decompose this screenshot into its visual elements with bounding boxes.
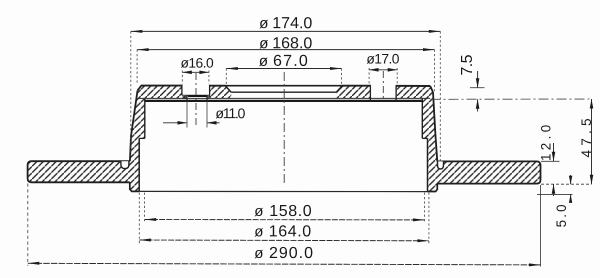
svg-text:12.0: 12.0 <box>538 121 553 161</box>
dim diameter 17.0: dimension line <box>369 69 397 71</box>
top face outer edge line (left of bolt hole) <box>141 85 183 87</box>
bolt hole 11: thick seat bar <box>188 95 207 97</box>
right flange relief notch <box>438 161 444 169</box>
svg-text:ø: ø <box>259 15 268 32</box>
left wall inner edge (lower, bore 164) <box>138 138 140 191</box>
drum mouth rim edge (far side, bottom opening) <box>139 190 427 192</box>
dim diameter 11.0: extension lines <box>186 101 188 128</box>
center bore left chamfer <box>225 86 231 93</box>
bolt hole 16 center line <box>195 73 197 127</box>
dim 5.0: arrows and stems <box>570 175 572 184</box>
bolt hole 11 left wall <box>186 95 188 101</box>
dim diameter 164.0: dimension line <box>139 239 429 242</box>
dim diameter 290.0: extension lines <box>27 184 29 266</box>
dim 5.0: extension line <box>537 193 573 195</box>
dim diameter 168.0: extension lines <box>136 50 138 84</box>
svg-text:174.0: 174.0 <box>272 15 312 32</box>
bolt hole 11 right wall <box>206 95 208 101</box>
bore hole 17 right wall <box>395 86 397 101</box>
inner ceiling thin edge (full width) <box>138 97 430 99</box>
right wall inner edge (lower) <box>427 138 429 191</box>
drum top band fill between center bore and right bolt hole <box>336 86 370 99</box>
svg-text:ø16.0: ø16.0 <box>181 56 214 71</box>
dim diameter 290.0: dimension line <box>28 263 541 265</box>
thick inner ceiling line of drum <box>145 100 423 102</box>
dim 12.0: extension lines <box>541 160 560 162</box>
dim 7.5: arrows and stems <box>477 71 479 88</box>
dim 47.5: dimension line <box>591 99 593 184</box>
dim diameter 174.0: extension lines <box>130 31 132 156</box>
dim diameter 158.0: extension lines <box>144 193 146 223</box>
dim diameter 16.0: dimension line <box>182 71 209 73</box>
left wall outer edge <box>130 91 138 162</box>
right inner step <box>422 137 427 139</box>
dim diameter 168.0: dimension line <box>137 49 434 51</box>
bore hole 17 left wall <box>369 86 371 101</box>
left wall inner edge (upper, bore 158) <box>144 99 146 138</box>
svg-text:67.0: 67.0 <box>273 53 309 70</box>
svg-text:168.0: 168.0 <box>272 35 312 52</box>
left flange outline <box>28 161 130 182</box>
bolt hole 16 left edge <box>181 86 183 96</box>
bolt hole 16 right edge <box>209 86 211 97</box>
svg-text:ø17.0: ø17.0 <box>366 51 399 66</box>
svg-text:ø: ø <box>259 35 268 52</box>
right wall outer edge <box>433 92 437 161</box>
left outer chamfer <box>138 86 142 91</box>
dim 12.0: arrows and stems <box>553 143 555 161</box>
right foot outline <box>428 184 438 192</box>
svg-text:ø: ø <box>254 223 263 240</box>
center bore recess floor edge <box>231 91 336 93</box>
dim diameter 17.0: extension lines <box>368 68 370 85</box>
svg-text:ø: ø <box>254 245 263 262</box>
bolt hole 16: counterbore seat line <box>182 94 210 96</box>
shared extension line (7.5 bottom / 47.5 top), dash-dot <box>431 98 592 100</box>
svg-text:5.0: 5.0 <box>554 202 569 227</box>
dim diameter 11.0: dimension line segments and arrows <box>163 122 187 124</box>
right flange outline <box>437 161 540 183</box>
dim 7.5: extension lines <box>470 87 485 89</box>
left foot outline <box>130 182 139 191</box>
svg-text:158.0: 158.0 <box>269 203 312 220</box>
bore hole 17 center line <box>382 71 384 100</box>
main vertical axis center line <box>283 72 285 186</box>
svg-text:7.5: 7.5 <box>459 54 476 75</box>
drum right section fill: top band, right wall, right flange, foot <box>396 86 540 192</box>
dim diameter 67.0: extension lines <box>225 69 227 85</box>
dim diameter 16.0: extension lines <box>181 71 183 85</box>
dim diameter 67.0: dimension line <box>226 68 341 70</box>
right wall inner edge (upper) <box>421 99 423 138</box>
center bore right chamfer <box>336 86 342 93</box>
svg-text:164.0: 164.0 <box>269 223 312 240</box>
svg-text:ø: ø <box>254 203 263 220</box>
top face edge right of bore to right bolt hole <box>342 85 371 87</box>
svg-text:47.5: 47.5 <box>579 114 594 157</box>
svg-text:ø11.0: ø11.0 <box>215 106 245 122</box>
left flange relief notch <box>121 161 129 168</box>
drum top band fill between bolt hole and center bore <box>210 86 232 99</box>
svg-text:290.0: 290.0 <box>269 245 314 262</box>
drum left section fill: top face band, left wall, left flange, foot <box>28 86 187 192</box>
dim diameter 164.0: extension lines <box>138 193 140 244</box>
dim diameter 158.0: dimension line <box>145 219 425 221</box>
dim diameter 174.0: dimension line <box>131 30 441 32</box>
face edge across center bore (visible edge) <box>225 85 342 87</box>
top face edge between hole and bore, with chamfer start <box>209 85 226 87</box>
small hatch wedges beside 11 hole <box>183 96 188 99</box>
top face edge right of bolt hole to rim <box>396 85 431 87</box>
shared extension (12.0 bottom / 47.5 bottom) <box>541 183 592 185</box>
left inner step <box>139 137 145 139</box>
right outer chamfer <box>430 86 433 92</box>
svg-text:ø: ø <box>259 53 268 70</box>
